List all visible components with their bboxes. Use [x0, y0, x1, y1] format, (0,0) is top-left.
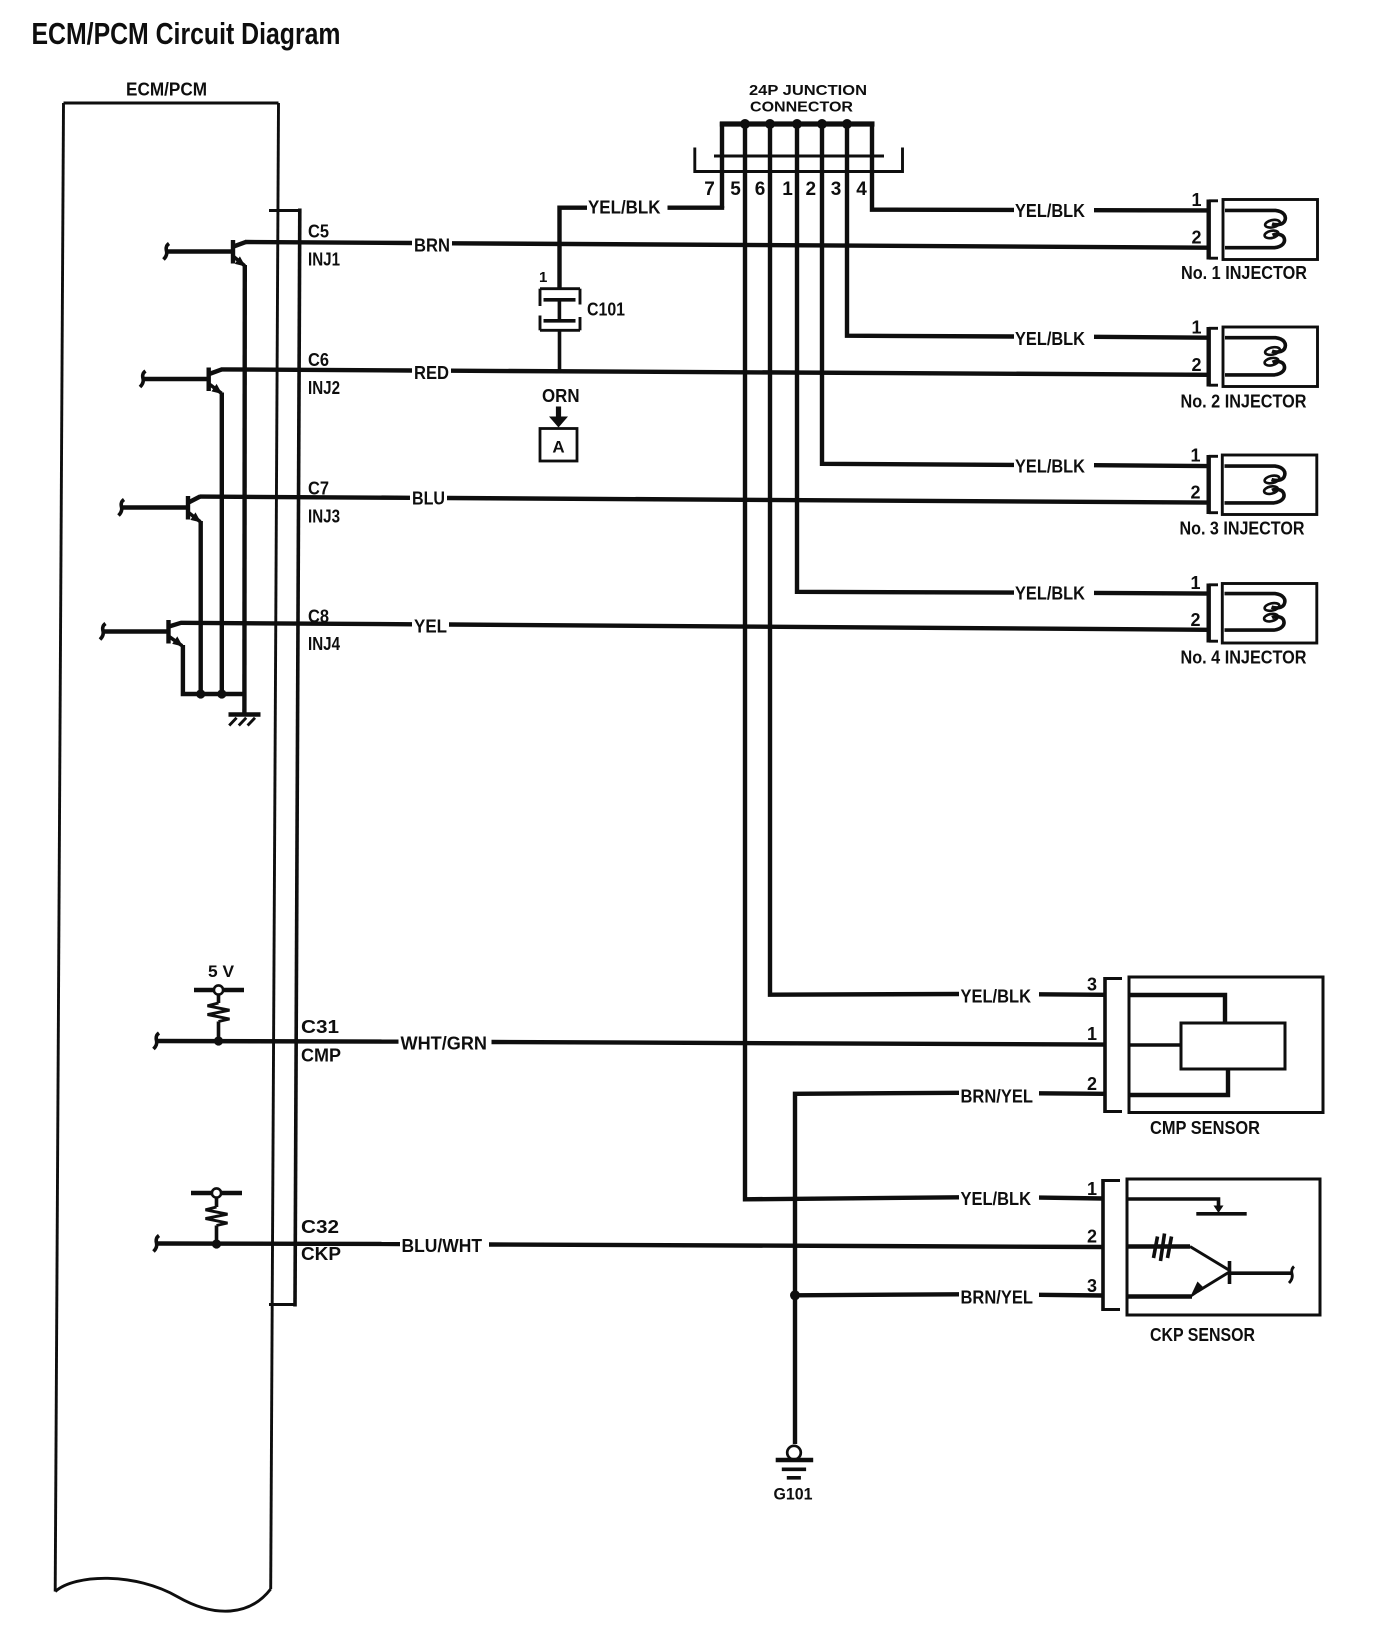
- svg-text:3: 3: [831, 179, 842, 200]
- svg-text:C101: C101: [587, 300, 625, 320]
- wire BRN/YEL from CMP sensor pin 2 to ground: [795, 1093, 1105, 1444]
- label YEL: [414, 617, 447, 637]
- label YEL/BLK (No.3 injector): [1015, 457, 1085, 477]
- label pin 1 (CMP sensor): [1087, 1024, 1097, 1044]
- label pin 2 (CKP sensor): [1087, 1227, 1097, 1247]
- label ECM/PCM: [126, 80, 207, 100]
- node junction R2 to C32 wire: [212, 1239, 221, 1248]
- svg-text:1: 1: [782, 179, 793, 200]
- svg-text:INJ2: INJ2: [308, 378, 340, 398]
- svg-text:WHT/GRN: WHT/GRN: [401, 1034, 488, 1054]
- node 5V terminal circle (CMP pull-up): [214, 985, 223, 994]
- label pin 1 (No.4 injector): [1190, 573, 1200, 593]
- svg-text:24P JUNCTION: 24P JUNCTION: [749, 82, 867, 99]
- label CKP SENSOR: [1150, 1325, 1255, 1345]
- svg-text:3: 3: [1087, 975, 1097, 995]
- svg-text:6: 6: [755, 179, 766, 200]
- label YEL/BLK (CMP sensor): [961, 987, 1032, 1007]
- label YEL/BLK (top left): [588, 198, 661, 218]
- svg-text:3: 3: [1087, 1276, 1097, 1296]
- node busbar junction pin 6: [765, 119, 775, 129]
- wire C8 YEL (to No.4 injector pin 2): [181, 623, 1209, 630]
- node emitter bus junction Q3: [196, 689, 205, 698]
- pin C5 label: [308, 222, 329, 242]
- 24P junction connector busbar: [720, 121, 875, 126]
- wire Q1 emitter drop: [242, 265, 247, 713]
- label pin 2: [806, 179, 817, 200]
- wire Q4 emitter drop: [183, 645, 245, 694]
- svg-text:2: 2: [1191, 228, 1201, 248]
- svg-text:A: A: [552, 438, 564, 457]
- svg-text:C31: C31: [301, 1017, 339, 1037]
- node junction BRN/YEL branch (CKP): [790, 1290, 800, 1300]
- pin C32 label: [301, 1217, 339, 1237]
- svg-text:2: 2: [1190, 483, 1200, 503]
- pin INJ3 label: [308, 507, 340, 527]
- ground chassis (transistor emitters): [229, 715, 261, 726]
- svg-text:No. 3 INJECTOR: No. 3 INJECTOR: [1180, 519, 1305, 539]
- label pin 7: [704, 179, 715, 200]
- resistor R1 (CMP pull-up): [208, 995, 230, 1042]
- label pin 2 (No.3 injector): [1190, 483, 1200, 503]
- pin C8 label: [308, 607, 329, 627]
- wire junction pin 6 to CMP sensor pin 3: [770, 121, 1105, 995]
- wire YEL/BLK from junction pin 7 to C101: [560, 206, 723, 288]
- svg-text:BRN: BRN: [414, 236, 450, 256]
- svg-text:1: 1: [1191, 190, 1201, 210]
- pin INJ4 label: [308, 634, 340, 654]
- pin C31 label: [301, 1017, 339, 1037]
- svg-text:CKP: CKP: [301, 1244, 341, 1264]
- label pin 1: [782, 179, 793, 200]
- svg-text:1: 1: [1190, 573, 1200, 593]
- svg-text:INJ4: INJ4: [308, 634, 340, 654]
- svg-text:BLU: BLU: [412, 489, 445, 509]
- wire Q3 emitter drop: [198, 521, 202, 696]
- label C101: [587, 300, 625, 320]
- transistor Q1 (INJ1 driver): [164, 240, 247, 267]
- svg-text:YEL/BLK: YEL/BLK: [1015, 457, 1085, 477]
- svg-text:BLU/WHT: BLU/WHT: [402, 1236, 483, 1256]
- svg-text:CMP SENSOR: CMP SENSOR: [1150, 1118, 1260, 1138]
- label pin 2 (No.1 injector): [1191, 228, 1201, 248]
- svg-text:1: 1: [1087, 1179, 1097, 1199]
- svg-text:1: 1: [1191, 318, 1201, 338]
- label YEL/BLK (No.1 injector): [1015, 201, 1085, 221]
- label ORN: [542, 386, 580, 406]
- wire junction pin 5 to CKP sensor pin 1: [745, 121, 1103, 1199]
- 24P junction connector lower bar: [714, 155, 884, 158]
- svg-text:1: 1: [1190, 446, 1200, 466]
- wire junction pin 1 to No.4 injector pin 1: [797, 121, 1209, 594]
- svg-text:C32: C32: [301, 1217, 339, 1237]
- label pin 5: [730, 179, 741, 200]
- svg-text:No. 4 INJECTOR: No. 4 INJECTOR: [1181, 648, 1307, 668]
- wire junction pin 3 to No.2 injector pin 1: [847, 121, 1209, 338]
- label pin 3: [831, 179, 842, 200]
- ECM/PCM module box U1: [55, 103, 278, 1611]
- svg-text:CKP SENSOR: CKP SENSOR: [1150, 1325, 1255, 1345]
- No.2 injector body: [1223, 327, 1318, 387]
- label RED: [414, 363, 449, 383]
- label pin 3 (CKP sensor): [1087, 1276, 1097, 1296]
- wire C32 BLU/WHT (to CKP sensor pin 2): [154, 1236, 1104, 1252]
- label pin 6: [755, 179, 766, 200]
- label pin 2 (No.4 injector): [1190, 610, 1200, 630]
- node emitter bus junction Q2: [217, 689, 226, 698]
- No.1 injector body: [1223, 200, 1318, 260]
- label G101: [774, 1485, 813, 1504]
- No.3 injector body: [1222, 455, 1317, 515]
- 24P junction connector housing: [695, 148, 903, 172]
- wire junction pin 4 to No.1 injector pin 1: [872, 122, 1209, 210]
- svg-text:5 V: 5 V: [208, 962, 235, 981]
- svg-text:G101: G101: [774, 1485, 813, 1504]
- ECM connector bracket (pin header face): [269, 209, 300, 1307]
- label pin 4: [856, 179, 867, 200]
- svg-text:No. 1 INJECTOR: No. 1 INJECTOR: [1181, 263, 1307, 283]
- wire BRN/YEL from CKP sensor pin 3: [795, 1294, 1103, 1295]
- CMP sensor body: [1129, 977, 1323, 1113]
- label pin 2 (No.2 injector): [1191, 355, 1201, 375]
- pin CKP label: [301, 1244, 341, 1264]
- label 24P JUNCTION CONNECTOR: [749, 82, 867, 116]
- svg-text:YEL/BLK: YEL/BLK: [588, 198, 661, 218]
- svg-text:7: 7: [704, 179, 715, 200]
- svg-text:CONNECTOR: CONNECTOR: [750, 99, 853, 116]
- label pin 3 (CMP sensor): [1087, 975, 1097, 995]
- svg-text:CMP: CMP: [301, 1046, 341, 1066]
- svg-text:2: 2: [1190, 610, 1200, 630]
- resistor R2 (CKP pull-up): [206, 1198, 228, 1245]
- label No. 2 INJECTOR: [1181, 392, 1307, 412]
- label pin 2 (CMP sensor): [1087, 1074, 1097, 1094]
- svg-text:ECM/PCM: ECM/PCM: [126, 80, 207, 100]
- wire C31 WHT/GRN (to CMP sensor pin 1): [154, 1033, 1106, 1049]
- node busbar junction pin 1: [792, 119, 802, 129]
- svg-text:INJ3: INJ3: [308, 507, 340, 527]
- node busbar junction pin 3: [842, 119, 852, 129]
- svg-text:2: 2: [1087, 1227, 1097, 1247]
- connector C101: [540, 289, 580, 331]
- label YEL/BLK (No.4 injector): [1015, 584, 1085, 604]
- svg-text:ECM/PCM Circuit Diagram: ECM/PCM Circuit Diagram: [32, 16, 341, 51]
- svg-text:YEL/BLK: YEL/BLK: [961, 987, 1032, 1007]
- injector connector bracket No.2: [1209, 327, 1218, 387]
- wire C7 BLU (to No.3 injector pin 2): [200, 497, 1209, 503]
- label pin 1 (No.3 injector): [1190, 446, 1200, 466]
- wire C101 to RED wire (ORN segment): [558, 330, 562, 372]
- node 5V terminal circle (CKP pull-up): [212, 1188, 221, 1197]
- label pin 1 (No.1 injector): [1191, 190, 1201, 210]
- label BRN/YEL (CKP sensor): [961, 1288, 1034, 1308]
- node busbar junction pin 5: [740, 119, 750, 129]
- pin INJ2 label: [308, 378, 340, 398]
- svg-text:INJ1: INJ1: [308, 250, 340, 270]
- CKP sensor body: [1127, 1179, 1320, 1315]
- svg-text:No. 2 INJECTOR: No. 2 INJECTOR: [1181, 392, 1307, 412]
- label BRN: [414, 236, 450, 256]
- label pin 1 (CKP sensor): [1087, 1179, 1097, 1199]
- label YEL/BLK (No.2 injector): [1015, 329, 1085, 349]
- svg-text:YEL/BLK: YEL/BLK: [961, 1189, 1032, 1209]
- label CMP SENSOR: [1150, 1118, 1260, 1138]
- svg-text:2: 2: [1087, 1074, 1097, 1094]
- label No. 4 INJECTOR: [1181, 648, 1307, 668]
- wire C5 BRN (to No.1 injector pin 2): [245, 242, 1209, 248]
- svg-text:BRN/YEL: BRN/YEL: [961, 1288, 1034, 1308]
- label WHT/GRN: [401, 1034, 488, 1054]
- svg-text:YEL/BLK: YEL/BLK: [1015, 329, 1085, 349]
- injector connector bracket No.3: [1209, 455, 1218, 514]
- transistor Q3 (INJ3 driver): [119, 496, 202, 523]
- svg-text:BRN/YEL: BRN/YEL: [961, 1087, 1034, 1107]
- 5V supply rail bar (CKP pull-up): [191, 1191, 242, 1195]
- svg-text:2: 2: [1191, 355, 1201, 375]
- label BLU/WHT: [402, 1236, 483, 1256]
- label BRN/YEL (CMP sensor): [961, 1087, 1034, 1107]
- label 5 V supply: [208, 962, 235, 981]
- ground G101: [776, 1446, 814, 1478]
- 5V supply rail bar (CMP pull-up): [194, 988, 244, 992]
- wire Q2 emitter drop: [220, 393, 224, 697]
- pin C6 label: [308, 350, 329, 370]
- pin C7 label: [308, 479, 329, 499]
- wire C6 RED (to No.2 injector pin 2): [221, 369, 1209, 374]
- svg-text:C5: C5: [308, 222, 329, 242]
- label 1 (C101 pin): [539, 269, 547, 286]
- transistor Q4 (INJ4 driver): [100, 620, 183, 647]
- node busbar junction pin 2: [817, 119, 827, 129]
- svg-text:1: 1: [539, 269, 547, 286]
- svg-text:C6: C6: [308, 350, 329, 370]
- svg-text:1: 1: [1087, 1024, 1097, 1044]
- svg-text:YEL/BLK: YEL/BLK: [1015, 584, 1085, 604]
- svg-text:YEL: YEL: [414, 617, 447, 637]
- label BLU: [412, 489, 445, 509]
- svg-text:YEL/BLK: YEL/BLK: [1015, 201, 1085, 221]
- svg-text:4: 4: [856, 179, 867, 200]
- CMP sensor connector bracket: [1105, 977, 1122, 1113]
- off-page reference box A: [540, 429, 577, 462]
- CKP sensor connector bracket: [1103, 1179, 1120, 1311]
- svg-text:2: 2: [806, 179, 817, 200]
- label pin 1 (No.2 injector): [1191, 318, 1201, 338]
- pin CMP label: [301, 1046, 341, 1066]
- label YEL/BLK (CKP sensor): [961, 1189, 1032, 1209]
- wire junction pin 2 to No.3 injector pin 1: [822, 121, 1209, 466]
- injector connector bracket No.4: [1209, 584, 1218, 643]
- node junction R1 to C31 wire: [214, 1036, 223, 1045]
- transistor Q2 (INJ2 driver): [140, 368, 222, 395]
- svg-text:5: 5: [730, 179, 741, 200]
- arrow to off-page reference A: [549, 407, 568, 428]
- pin INJ1 label: [308, 250, 340, 270]
- svg-text:RED: RED: [414, 363, 449, 383]
- label No. 1 INJECTOR: [1181, 263, 1307, 283]
- injector connector bracket No.1: [1209, 200, 1218, 260]
- title ECM/PCM Circuit Diagram: [32, 16, 341, 51]
- label No. 3 INJECTOR: [1180, 519, 1305, 539]
- No.4 injector body: [1222, 584, 1317, 644]
- svg-text:ORN: ORN: [542, 386, 580, 406]
- wire junction pin 7 stem: [720, 122, 724, 208]
